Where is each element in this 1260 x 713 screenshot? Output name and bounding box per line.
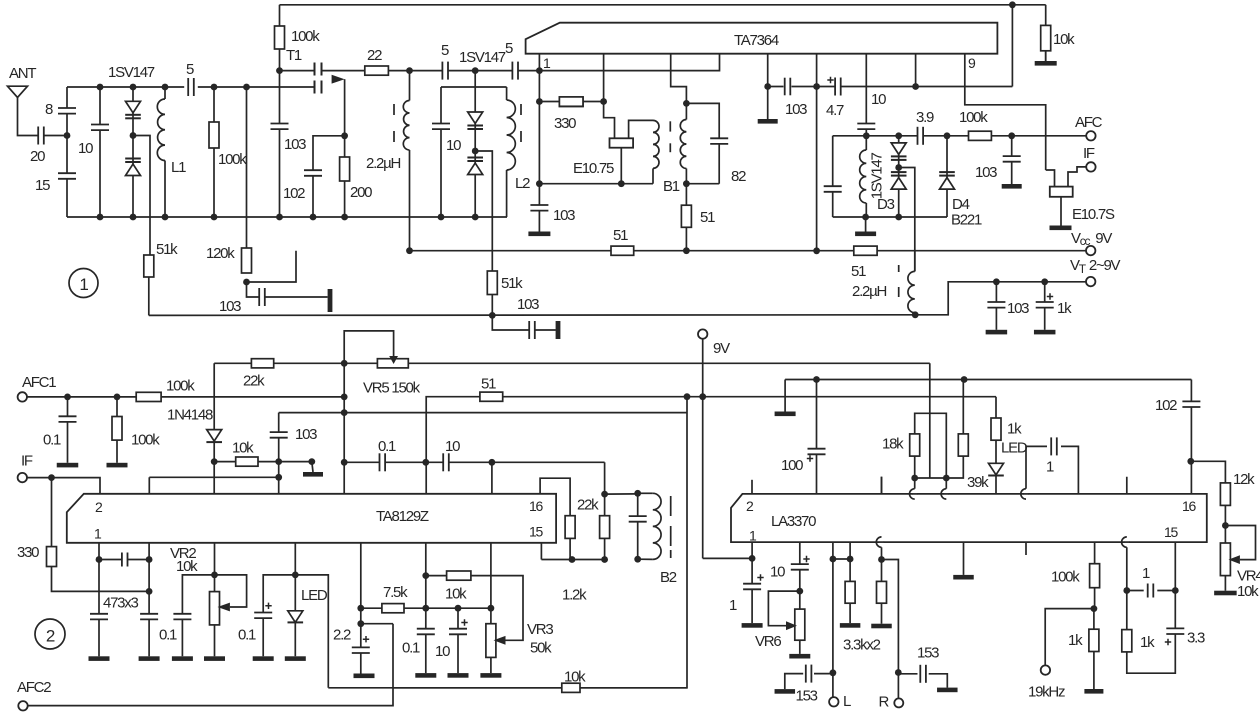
terminal VT [1086,277,1095,286]
label VR3 50k [530,640,552,657]
wire cap1b row b [1157,590,1175,592]
node rail d [211,84,218,91]
label 51 b [851,263,866,280]
ground VR6 [789,654,810,659]
node la 39k [961,376,968,383]
resistor 10k afc2 [562,683,580,692]
capacitor 0.1 b [172,614,192,620]
wire pin8 stub [915,54,917,87]
wire T1 source [344,79,346,136]
wire pin stub 214 [214,543,216,575]
svg-text:1SV147: 1SV147 [108,64,155,81]
wire vr4 gnd [1224,576,1226,591]
svg-text:100k: 100k [291,28,320,45]
label 2.2 [333,627,351,644]
label L1 [171,159,186,176]
resistor 22 [365,66,389,75]
svg-text:20: 20 [30,148,45,165]
node bus1 h [438,214,445,221]
transformer B2 coil [653,493,661,559]
polarity 1k vt [1047,293,1053,299]
svg-text:16: 16 [1182,498,1197,514]
node l pin [830,556,837,563]
node det3 [536,180,543,187]
wire 10k branch [1045,5,1047,61]
svg-text:B221: B221 [951,212,982,229]
svg-text:L1: L1 [171,159,186,176]
label 8 [45,101,53,118]
label VR4 10k [1237,583,1259,600]
svg-text:330: 330 [17,544,39,561]
wire antenna stem [18,98,39,136]
label 1 mpx [1046,459,1054,476]
wire coil2 top lead [914,251,916,272]
svg-text:102: 102 [1155,397,1177,414]
wire caps row b [385,461,443,463]
node agc c [308,458,315,465]
varactor 1SV147 upper [125,101,141,118]
svg-text:10k: 10k [445,586,467,603]
diode LED a [288,611,304,623]
label VR2 10k [176,558,198,575]
label 10 quad [871,91,886,108]
wire 0.1 afc branch [67,397,69,463]
svg-text:3.3kx2: 3.3kx2 [843,637,881,654]
wire L2 bottom lead [506,170,508,217]
wire osc coil bottom lead [409,150,411,251]
wire row379 right [964,379,1191,381]
svg-text:82: 82 [731,168,746,185]
wire VT filter to chassis [535,329,556,331]
capacitor 0.1 c [253,613,273,619]
label 330 det [554,115,576,132]
label 330 if [17,544,39,561]
svg-text:2.2: 2.2 [333,627,351,644]
wire 102 branch [1190,380,1192,494]
pin 15 TA8129Z [529,524,544,540]
node vr6 top [796,588,803,595]
label 102 [283,185,305,202]
label 7.5k [383,584,408,601]
transformer B2 core [670,496,672,558]
terminal 19kHz [1041,665,1050,674]
svg-text:51: 51 [613,227,628,244]
label D4 [952,196,970,213]
wire pin9 afc line [965,54,1046,170]
svg-text:103: 103 [284,136,306,153]
svg-text:5: 5 [441,42,449,59]
label 1.2k [562,587,587,604]
wire AFC1 line b [161,396,344,398]
wire gate1 row [279,26,281,71]
varactor D4 [939,172,955,189]
node ta 425a [422,572,429,579]
label 15 [35,177,50,194]
capacitor 0.1 d [416,629,436,635]
wire pin stub 1N4148 [213,462,215,494]
wire 9V riser [702,339,704,559]
capacitor 82 [709,138,729,144]
hop bottom edge a [876,537,884,547]
label 0.1 a [378,438,396,455]
ground 1k vt [1034,330,1056,335]
ground pin4 [758,119,778,124]
capacitor int a [122,552,128,568]
wire osc coil top lead [409,71,411,101]
wire if filter lead [1046,170,1055,187]
polarity 10b [461,619,467,625]
label 10 tank [446,137,461,154]
node bus1 g [341,214,348,221]
svg-text:1: 1 [729,597,737,614]
wire b2 top row [605,493,638,495]
svg-text:100k: 100k [131,432,160,449]
label IF out [1083,145,1095,162]
label 20 [30,148,45,165]
wire 103 cap branch [278,413,280,494]
resistor 51 load [681,205,691,227]
wire pin2 to crystal [604,102,615,139]
svg-text:15: 15 [35,177,50,194]
node tank mid [472,148,479,155]
capacitor 103 agc [269,432,289,438]
label 1SV147 quad [869,153,886,200]
capacitor 1 pilot [1148,583,1154,599]
wire B1 right coil bottom [685,169,687,184]
label 100k afc [959,109,988,126]
capacitor 473 a [89,614,109,620]
svg-text:16: 16 [529,498,544,514]
ground LED a [285,656,306,661]
node bus1 c [162,214,169,221]
wire vr4 wiper [1225,526,1255,560]
svg-text:3.9: 3.9 [916,109,934,126]
wire supply branch riser [393,397,687,688]
wire decoupling row c [841,86,1013,88]
svg-text:E10.75: E10.75 [573,160,614,177]
svg-text:AFC: AFC [1075,114,1103,131]
resistor 330 if [47,547,57,567]
wire 22 to osc node [388,70,409,72]
label 1SV147 osc [459,49,506,66]
label 10k fm [445,586,467,603]
inductor L2 [507,100,516,170]
crystal E10.75 [610,138,634,147]
wire l line [832,559,834,697]
node agc d [275,474,282,481]
svg-text:1.2k: 1.2k [562,587,587,604]
wire D3 tap [899,168,915,272]
wire mixer in [518,54,720,71]
capacitor 5 rail [188,77,194,97]
wire b2 cap line [637,493,639,559]
ground 0.1 afc1 [57,463,79,468]
resistor 100k pullup [275,26,285,49]
wire vr6 wiper [768,591,799,626]
wire 10k afc2 row b [580,687,687,689]
label B221 [951,212,982,229]
pin 9 TA7364 [968,55,976,71]
label 10 a [445,438,460,455]
svg-text:9V: 9V [713,340,730,357]
varactor D3 upper [891,143,907,160]
wire vr5 wiper loop [344,331,393,363]
terminal 9V [698,329,707,338]
node 3k3a [847,556,854,563]
label 51k right [501,275,523,292]
wire 100k afc1 branch [116,397,118,463]
ground 153 b [937,688,958,693]
wire 120k branch [246,87,248,248]
node b2 c [569,556,576,563]
wire ground bus 1 [67,216,507,218]
resistor 100k afc [969,131,992,140]
ground VR4 [1214,591,1237,596]
svg-text:AFC2: AFC2 [17,679,51,696]
svg-text:10k: 10k [176,558,198,575]
wire 19k row [1045,609,1094,666]
svg-text:1k: 1k [1007,421,1022,438]
wire 0.1 mid branch [425,576,427,674]
wire pin riser 492 [491,462,493,494]
label AFC1 [22,374,56,391]
svg-text:10k: 10k [1237,583,1259,600]
node vr4 top [1222,522,1229,529]
wire pin riser 360 [360,543,362,624]
svg-text:LED: LED [301,587,328,604]
node row412 [341,409,348,416]
potentiometer VR2 [210,592,220,625]
wire vr6 gnd [799,640,801,654]
node ta 425b [422,605,429,612]
wire 18k loop [915,413,947,478]
node afc a [863,132,870,139]
wire det bottom line [539,183,653,185]
svg-text:1SV147: 1SV147 [459,49,506,66]
wire pin riser 425 [425,543,427,576]
terminal R [894,698,903,707]
wire 51k-b to VT bus [491,295,493,316]
capacitor 1k vt [1035,302,1055,308]
node pll a [911,475,918,482]
wire mpx cap box b [1061,446,1078,494]
wire L2 top lead [506,87,508,100]
terminal IF out [1086,162,1095,171]
potentiometer VR5 arrow [389,356,398,364]
capacitor 473 b [139,614,159,620]
label 1N4148 [167,407,213,424]
svg-text:IF: IF [21,453,33,470]
resistor 22k [251,359,273,368]
wire cap10 branch [99,87,101,217]
svg-text:120k: 120k [206,245,235,262]
label E10.75 [573,160,614,177]
svg-text:VR3: VR3 [527,621,553,638]
potentiometer VR2 arrow [218,603,230,612]
label L [843,693,851,710]
op-amp U3 LA3370 [731,494,1207,542]
wire vr3 gnd [490,657,492,673]
wire pin1 to det [538,102,540,232]
capacitor 153 a [806,664,812,684]
wire 473 cap1 branch [98,560,100,657]
label 10 b [435,643,450,660]
potentiometer VR6 [795,609,805,640]
svg-text:D4: D4 [952,196,970,213]
wire 1kb branch [1126,591,1128,652]
label 100k afc1 [166,378,195,395]
node cap1b b [1172,587,1179,594]
wire 10k bias gnd [1045,51,1047,61]
label 103 agc [295,426,317,443]
label ANT [9,65,36,82]
node afc1 a [64,394,71,401]
label 51k left [156,241,178,258]
wire gnd stub [784,380,786,412]
node vt d [1041,278,1048,285]
hop bottom edge b [1122,537,1130,547]
pin 1 TA8129Z [94,526,102,542]
wire 120k to Vcc bus [247,251,297,282]
svg-text:0.1: 0.1 [43,432,61,449]
svg-text:5: 5 [505,40,513,57]
wire mpx cap box [1026,446,1047,497]
wire led branch [294,575,296,656]
label T1 [286,47,302,64]
node d3 mid [895,164,902,171]
polarity 0.1c [265,603,271,609]
wire pin stub 99 [98,543,100,560]
label 120k [206,245,235,262]
svg-text:103: 103 [553,207,575,224]
wire if terminal lead [1068,167,1086,187]
wire pin1 la stub [751,542,753,558]
node rail c [162,84,169,91]
svg-text:LED: LED [1001,440,1028,457]
node ta 360a [357,605,364,612]
resistor 100k afc1 shunt [112,417,122,441]
wire 330 row [539,101,559,103]
label TA7364 [734,32,779,49]
node pilot [878,556,885,563]
wire Vcc bus [410,250,612,252]
ground 0.1 d [415,673,436,678]
wire 120k filter to chassis [265,296,328,298]
svg-text:50k: 50k [530,640,552,657]
label 3.9 [916,109,934,126]
node caps b [422,459,429,466]
capacitor 102 [303,170,323,176]
label VT [1070,257,1121,276]
node agc b [275,458,282,465]
wire top bias line [280,4,1046,6]
potentiometer VR5 [377,359,408,368]
transistor T1 [315,63,345,94]
wire 51k to VT bus [148,277,150,315]
node b2 a [601,491,608,498]
polarity 3.3 [1165,639,1171,645]
svg-text:R: R [879,694,890,711]
capacitor 10 vr6 [790,564,810,570]
wire l pin stub [832,542,834,559]
svg-text:15: 15 [529,524,544,540]
label 1k vt [1057,300,1072,317]
wire int 1026 [1025,494,1027,555]
wire D4 chain [946,136,948,217]
hop top edge b [941,489,949,499]
wire 1kb loop [1127,637,1176,673]
wire quad cap branch [686,103,719,183]
wire 22k to vr5 node [274,362,378,364]
resistor 39k [958,434,968,456]
svg-text:103: 103 [219,298,241,315]
svg-text:TA7364: TA7364 [734,32,779,49]
potentiometer VR4 [1220,543,1230,576]
wire filter stem [1060,197,1062,226]
node bus1 f [310,214,317,221]
wire VT bus [149,314,915,317]
wire agc gnd stub [312,462,313,472]
resistor 1k pll [1089,629,1099,651]
label L2 [515,175,530,192]
resistor 120k [242,248,252,273]
node row86 b [813,83,820,90]
svg-text:1k: 1k [1057,300,1072,317]
node bus1 a [97,214,104,221]
svg-text:10k: 10k [1053,31,1075,48]
svg-text:7.5k: 7.5k [383,584,408,601]
svg-text:1: 1 [1046,459,1054,476]
node 9v a [684,393,691,400]
label 100k input [218,151,247,168]
wire gate bias branch [279,71,281,217]
resistor 51 supply [480,392,503,401]
wire afc row b [923,135,968,137]
wire VT cap1k stub [1044,282,1046,330]
wire 10uF la stub [799,542,801,609]
resistor 51k right [487,271,497,295]
svg-text:2.2µH: 2.2µH [852,283,886,300]
label AFC2 [17,679,51,696]
wire L1 top lead [164,87,166,99]
ground 0.1 c [253,656,274,661]
wire 100uF branch [816,380,818,494]
label 22 [367,47,382,64]
terminal AFC2 [18,701,27,710]
polarity 10 vr6 [803,556,809,562]
wire 473 cap2 branch [148,560,150,657]
wire b2 coil top lead [638,492,653,494]
hop top edge a [910,489,918,499]
node 120k [243,279,250,286]
ground 3.3k b [871,624,892,629]
label LED b [1001,440,1028,457]
wire pin1 stub [538,54,540,71]
resistor 1k led [991,418,1001,440]
polarity 100 [807,455,813,461]
wire 7.5k row [361,607,382,609]
wire afc2 feedback [328,687,393,689]
node vcc a [406,247,413,254]
ground 3.3k a [840,623,861,628]
wire pilot cap line [1126,477,1128,591]
capacitor 15 [57,173,77,179]
wire 100k pll branch [1094,542,1096,609]
svg-text:B1: B1 [663,178,680,195]
node bus1 b [130,214,137,221]
node vr5 [341,360,348,367]
wire 330 if branch [51,478,53,547]
